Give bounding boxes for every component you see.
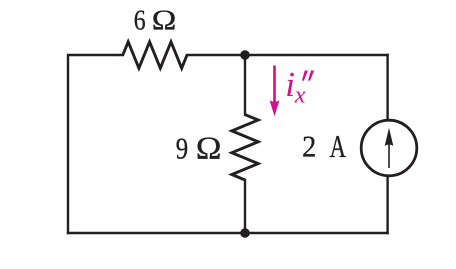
svg-text:x: x (294, 83, 306, 109)
svg-text:A: A (330, 130, 347, 164)
svg-text:Ω: Ω (152, 5, 177, 36)
svg-text:2: 2 (302, 131, 316, 164)
svg-text:Ω: Ω (196, 132, 222, 166)
svg-text:i: i (285, 65, 295, 104)
svg-text:9: 9 (176, 132, 188, 166)
svg-text:6: 6 (134, 5, 146, 36)
